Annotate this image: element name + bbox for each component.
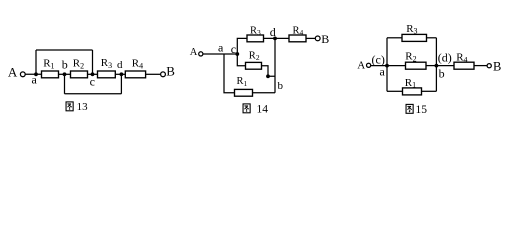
- svg-text:R2: R2: [405, 51, 416, 64]
- wire R3 to node d to R4: [264, 37, 290, 39]
- resistor R2: [71, 71, 88, 78]
- resistor R4: [125, 71, 145, 78]
- wire A to node a: [371, 65, 387, 67]
- resistor R1: [403, 88, 422, 95]
- wire c up to R3 row: [237, 38, 247, 54]
- svg-text:A: A: [8, 64, 18, 79]
- wire R3 to right bar: [427, 37, 437, 39]
- wire top rail a to c: [36, 49, 93, 51]
- svg-text:B: B: [321, 32, 329, 46]
- resistor R2: [246, 62, 262, 69]
- svg-text:b: b: [278, 80, 284, 92]
- svg-text:14: 14: [257, 104, 269, 116]
- terminal A circle: [20, 72, 25, 77]
- terminal B circle: [161, 72, 166, 77]
- resistor R1: [235, 89, 253, 96]
- terminal B circle: [487, 64, 491, 68]
- wire d down to node b and R1 row: [274, 38, 276, 92]
- svg-text:R2: R2: [73, 58, 84, 71]
- svg-text:R1: R1: [405, 77, 416, 90]
- wire R2 to R3 through node c: [88, 73, 98, 75]
- node c junction dot: [235, 52, 239, 56]
- wire bottom rail b to d: [65, 93, 122, 95]
- svg-text:b: b: [62, 58, 68, 72]
- wire A to node c: [203, 53, 237, 55]
- svg-text:R4: R4: [132, 58, 143, 71]
- svg-text:c: c: [231, 42, 236, 56]
- wire to R3: [387, 37, 402, 39]
- resistor R4: [289, 35, 306, 42]
- svg-text:a: a: [380, 64, 386, 78]
- left bus bar a: [386, 38, 388, 92]
- wire R1 to R2 through node b: [59, 73, 71, 75]
- wire to R2: [387, 65, 406, 67]
- svg-text:d: d: [117, 59, 123, 71]
- svg-text:b: b: [439, 66, 445, 80]
- terminal A circle: [199, 52, 203, 56]
- terminal B circle: [315, 36, 320, 41]
- svg-text:(d): (d): [438, 51, 452, 65]
- wire c down to R2 row: [237, 54, 245, 66]
- svg-text:R3: R3: [406, 23, 417, 36]
- node c junction dot: [91, 72, 95, 76]
- caption figure 15: [406, 104, 413, 113]
- wire R1 to node b vertical: [253, 92, 276, 94]
- resistor R1: [42, 71, 59, 78]
- svg-text:A: A: [190, 47, 198, 58]
- terminal A circle: [367, 63, 371, 67]
- svg-text:R1: R1: [237, 76, 248, 88]
- svg-text:13: 13: [77, 101, 89, 113]
- node b junction dot: [63, 72, 67, 76]
- caption figure 14: [243, 104, 250, 113]
- wire R4 to terminal B: [306, 37, 315, 39]
- svg-text:A: A: [357, 60, 365, 72]
- node d junction dot: [120, 72, 124, 76]
- svg-text:a: a: [218, 41, 224, 55]
- wire a down to R1 row: [224, 54, 235, 93]
- resistor R4: [454, 62, 474, 69]
- wire to R1: [387, 90, 403, 92]
- wire R1 to right bar: [422, 90, 437, 92]
- svg-text:d: d: [270, 25, 276, 39]
- svg-text:a: a: [32, 72, 38, 86]
- wire b down to bottom rail: [64, 74, 66, 94]
- resistor R2: [406, 62, 427, 69]
- svg-text:B: B: [166, 64, 175, 79]
- svg-text:R1: R1: [43, 58, 54, 71]
- node a junction dot: [34, 72, 38, 76]
- node d junction dot: [273, 37, 277, 41]
- wire bottom rail up to d: [120, 74, 122, 94]
- wire R4 to terminal B: [474, 65, 487, 67]
- right bus bar b: [435, 38, 437, 92]
- wire R2 jog to node b vertical: [262, 66, 276, 77]
- resistor R3: [402, 34, 427, 41]
- wire b to R4: [436, 65, 454, 67]
- svg-text:R3: R3: [250, 26, 261, 38]
- node a junction dot: [385, 64, 389, 68]
- svg-text:15: 15: [416, 104, 428, 116]
- svg-text:R3: R3: [101, 57, 112, 70]
- junction dot on R2 jog: [266, 74, 270, 78]
- wire R2 to right bar: [426, 65, 436, 67]
- svg-text:R4: R4: [293, 26, 304, 38]
- svg-text:R4: R4: [456, 52, 467, 65]
- wire A to node a to R1: [25, 73, 42, 75]
- svg-text:B: B: [493, 60, 501, 74]
- node b junction dot: [435, 64, 439, 68]
- caption figure 13: [66, 102, 73, 111]
- svg-text:R2: R2: [249, 50, 260, 62]
- wire R3 to R4 through node d: [115, 73, 125, 75]
- svg-text:c: c: [90, 75, 95, 89]
- resistor R3: [247, 35, 264, 42]
- resistor R3: [98, 71, 116, 78]
- wire top rail down to c: [92, 50, 94, 74]
- wire a up to top rail: [35, 50, 37, 74]
- wire R4 to terminal B: [146, 73, 161, 75]
